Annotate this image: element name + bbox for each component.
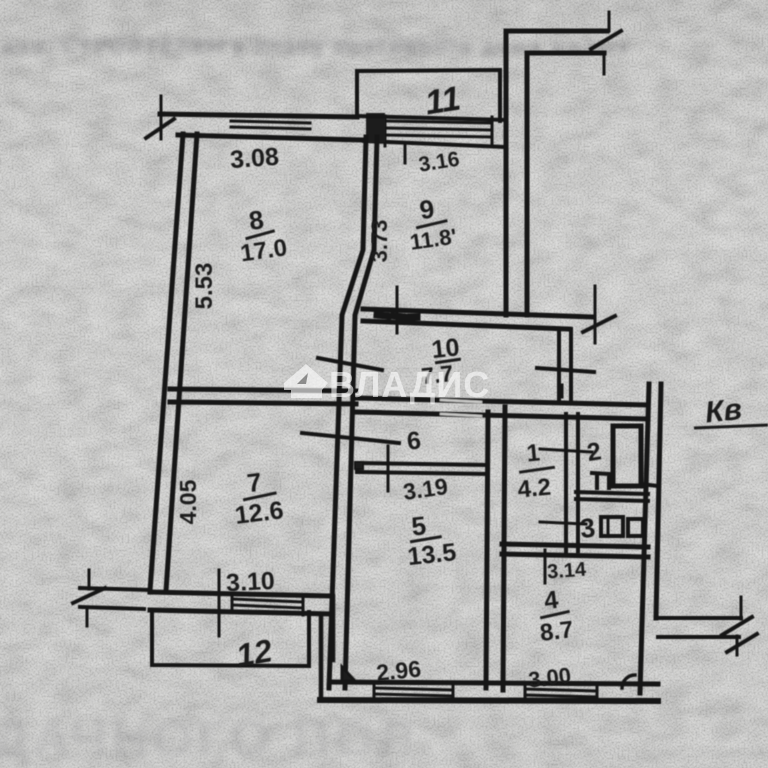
door opening corridor to room 6 bbox=[441, 400, 481, 416]
dim tick 3.14 bbox=[544, 550, 547, 583]
room 5 window frame bbox=[374, 683, 453, 700]
room 9 right wall inner stroke bbox=[504, 150, 509, 315]
wall over window band bbox=[357, 116, 506, 120]
wall right outer bbox=[640, 384, 661, 693]
svg-text:5.53: 5.53 bbox=[191, 263, 218, 310]
svg-text:4.05: 4.05 bbox=[175, 479, 201, 524]
room 9 label bbox=[404, 191, 458, 255]
dim tick window 9 bbox=[404, 144, 407, 163]
door line room 8 bbox=[318, 358, 382, 370]
exit slashes bbox=[722, 617, 757, 652]
handwritten labels bbox=[175, 79, 768, 692]
svg-text:13.5: 13.5 bbox=[406, 538, 457, 571]
svg-text:2.96: 2.96 bbox=[375, 655, 422, 686]
svg-text:Кв: Кв bbox=[704, 393, 744, 430]
kv underline bbox=[694, 425, 768, 428]
wall hallway1|rooms2,3 bbox=[566, 414, 578, 551]
watermark vladis bbox=[284, 364, 490, 405]
wall rooms 2|3 divider bbox=[576, 492, 648, 501]
room 7 label bbox=[229, 464, 285, 529]
svg-text:3.00: 3.00 bbox=[527, 663, 573, 693]
wall mid vertical left stroke (rooms 8/7 vs 9/10/6/5) bbox=[329, 137, 366, 688]
entrance dim ticks bbox=[87, 570, 89, 626]
dim line corridor right bbox=[594, 286, 597, 343]
outer corner wall top-right bbox=[506, 31, 607, 146]
wall room 6 bottom bbox=[357, 463, 488, 474]
svg-text:11: 11 bbox=[422, 79, 463, 122]
tick above hall wall bbox=[561, 385, 564, 397]
wall corridor 10 bottom / rooms 6,1 top bbox=[356, 398, 648, 419]
svg-text:3.10: 3.10 bbox=[225, 567, 275, 598]
entrance lines left bbox=[80, 588, 150, 609]
bath fixtures room 3 bbox=[601, 517, 623, 536]
kitchen door arc bbox=[622, 675, 635, 688]
door line room 3 bbox=[540, 522, 586, 524]
wall top inner (room 8) bbox=[178, 135, 364, 140]
room 7 window frame bbox=[232, 594, 303, 615]
room 9 window bbox=[385, 121, 492, 137]
room 5 label bbox=[403, 507, 458, 571]
faint scanned text band top bbox=[2, 33, 631, 59]
dim tick hall bbox=[537, 368, 594, 372]
svg-text:4.2: 4.2 bbox=[517, 474, 553, 504]
wall rooms 7/8 divider bbox=[170, 389, 356, 404]
entrance slash bbox=[73, 588, 105, 603]
room 7 bottom wall bbox=[150, 592, 331, 614]
hallway 1 label bbox=[513, 438, 557, 503]
svg-text:ДАЧНОГО ПОЛ: ДАЧНОГО ПОЛ bbox=[0, 710, 418, 768]
door cells corridor/room9 bbox=[377, 315, 417, 317]
door line room 2 bbox=[540, 449, 592, 452]
wall corridor 10 top bbox=[363, 309, 593, 329]
dim slash top-left bbox=[146, 119, 174, 138]
vent shaft room 2 bbox=[613, 426, 641, 486]
dim tick right bbox=[603, 52, 606, 74]
cut slash corridor right bbox=[583, 316, 615, 332]
dim tick x397 bbox=[396, 287, 399, 333]
exit dim ticks bbox=[737, 597, 741, 655]
room 8 label bbox=[234, 202, 289, 268]
svg-text:тех пасп материалов на семнадц: тех пасп материалов на семнадцатое декаб… bbox=[40, 33, 457, 50]
bottom outer wall inner stroke bbox=[330, 682, 658, 684]
svg-text:3.73: 3.73 bbox=[367, 220, 392, 263]
svg-text:3.08: 3.08 bbox=[229, 143, 280, 174]
svg-text:6: 6 bbox=[406, 426, 423, 455]
svg-text:3: 3 bbox=[579, 513, 597, 544]
svg-text:1: 1 bbox=[525, 439, 541, 467]
wall rooms 1,3 bottom / kitchen top bbox=[502, 544, 648, 557]
svg-text:8.7: 8.7 bbox=[538, 616, 574, 647]
wall rooms 6|1 / 5|4 vertical bbox=[486, 407, 505, 690]
wall corridor|hall vertical bbox=[559, 329, 571, 402]
balcony 11 bbox=[357, 70, 500, 121]
wall room 8 left inner stroke bbox=[166, 134, 197, 591]
bottom outer wall outer stroke bbox=[320, 700, 658, 701]
wall mid vertical right stroke bbox=[345, 137, 377, 688]
svg-text:12: 12 bbox=[233, 632, 275, 674]
wall room 8 left outer stroke bbox=[150, 134, 183, 591]
room 5 window bbox=[374, 688, 453, 696]
junction block balcony left bbox=[366, 113, 385, 142]
corridor 10 label bbox=[417, 333, 463, 389]
wall stub under vent bbox=[641, 484, 658, 486]
svg-text:12.6: 12.6 bbox=[233, 496, 285, 530]
dim line 3.10 bbox=[218, 570, 221, 636]
svg-text:3.14: 3.14 bbox=[546, 559, 587, 584]
watermark house icon bbox=[284, 364, 328, 398]
kitchen window bbox=[525, 689, 597, 697]
outer wall second line top-right bbox=[527, 53, 604, 315]
wall top outer (room 8) bbox=[160, 114, 357, 117]
door line room 7 bbox=[302, 433, 399, 443]
room 9 window frame bbox=[385, 116, 492, 146]
room 7 window bbox=[232, 599, 303, 608]
room 9 top wall inner bbox=[364, 141, 506, 147]
svg-text:ВЛАДИС: ВЛАДИС bbox=[329, 364, 490, 405]
left outer corner wall bottom bbox=[321, 596, 333, 700]
cut slash top-right bbox=[591, 31, 621, 49]
balcony 12 bbox=[152, 612, 309, 666]
kitchen 4 label bbox=[535, 584, 575, 647]
toilet fixture bbox=[592, 473, 609, 488]
kitchen window frame bbox=[525, 684, 597, 701]
exit passage right bbox=[656, 618, 741, 637]
dim cross room 6 bbox=[387, 446, 390, 491]
faint scanned text band bottom bbox=[0, 710, 418, 768]
junction dot room 6 bbox=[355, 462, 363, 469]
dim tick top-left bbox=[160, 96, 163, 139]
dim tick above slash bbox=[608, 12, 611, 31]
window 3.08 bbox=[231, 121, 310, 129]
room 5 balcony door mark bbox=[342, 667, 355, 681]
